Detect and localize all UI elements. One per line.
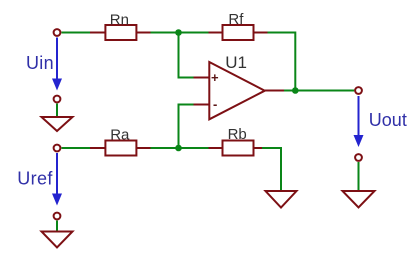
resistor Rb	[209, 126, 263, 156]
svg-text:Rn: Rn	[110, 11, 129, 28]
wire Uref terminal to Ra	[62, 147, 91, 149]
op-amp U1	[194, 53, 285, 119]
resistor Rf	[209, 11, 268, 40]
resistor Ra	[90, 126, 151, 155]
wire Uin terminal to Rn	[62, 32, 91, 34]
svg-text:Uout: Uout	[369, 110, 407, 130]
wire Rn to node A	[151, 32, 179, 34]
wire Rf to feedback corner and down to output node	[268, 33, 296, 91]
terminal Uin	[54, 29, 61, 36]
wire - input up from node B	[179, 105, 194, 149]
wire node B to Rb	[179, 147, 209, 149]
svg-text:Rb: Rb	[228, 126, 247, 143]
wire node A to Rf	[179, 32, 209, 34]
wire Uin ground stub	[56, 104, 58, 118]
wire op-amp output to Uout terminal	[284, 90, 354, 92]
node A junction	[175, 29, 182, 36]
resistor Rn	[90, 11, 151, 40]
wire Uref ground stub	[56, 221, 58, 232]
svg-text:U1: U1	[225, 53, 247, 72]
wire Rb to ground corner	[262, 148, 281, 191]
terminal circle above Uin ground	[54, 96, 61, 103]
terminal Uref	[54, 145, 61, 152]
ground under Uout	[343, 191, 375, 208]
svg-text:+: +	[211, 70, 219, 85]
svg-text:Uin: Uin	[26, 53, 54, 73]
ground under Uref	[42, 232, 73, 248]
arrow Uin	[52, 38, 62, 91]
svg-text:Uref: Uref	[17, 168, 53, 188]
ground under Rb	[266, 191, 297, 208]
svg-text:Rf: Rf	[228, 11, 244, 28]
terminal circle above Uref ground	[54, 213, 61, 220]
output node junction	[292, 87, 299, 94]
wire Uout ground stub	[358, 162, 360, 191]
svg-text:Ra: Ra	[110, 126, 130, 143]
svg-text:-: -	[213, 97, 217, 112]
arrow Uout	[354, 96, 364, 147]
node B junction	[175, 145, 182, 152]
terminal Uout	[355, 87, 362, 94]
terminal circle above Uout ground	[355, 154, 362, 161]
wire Ra to node B	[151, 147, 179, 149]
arrow Uref	[52, 153, 62, 206]
ground under Uin	[42, 117, 73, 131]
wire node A down to + input	[179, 33, 194, 78]
